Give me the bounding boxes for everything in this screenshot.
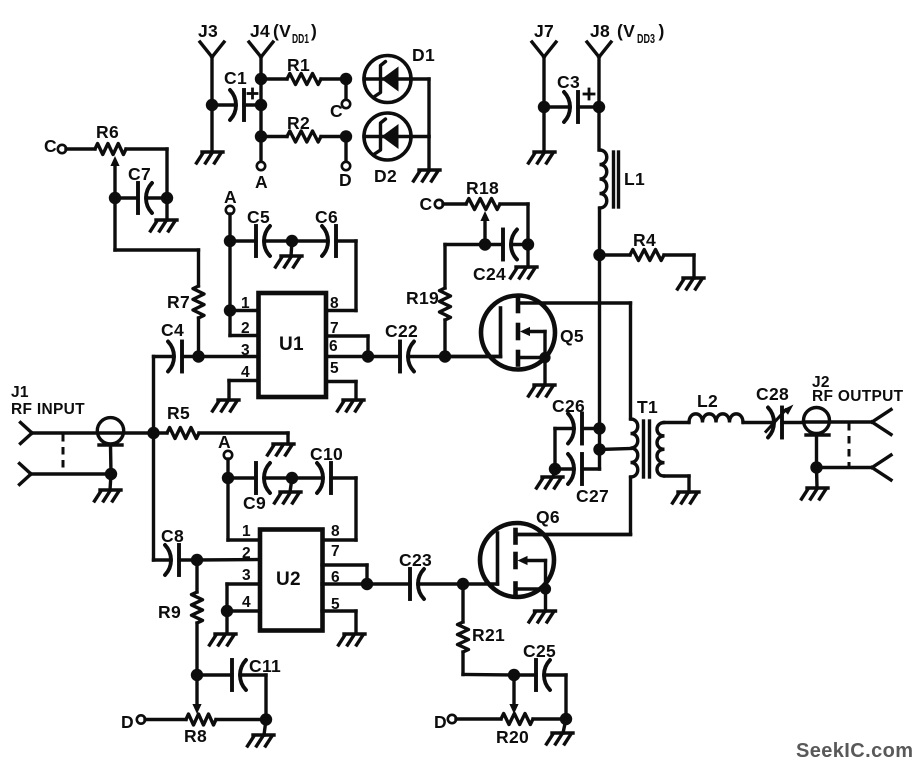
wire R21 to C25 [463,673,514,677]
junction C11-R8 [260,713,272,725]
wire center tap [600,449,631,450]
wire C6 to pin8 [327,241,356,311]
junction J2 shield [810,461,822,473]
svg-text:DD3: DD3 [637,32,655,46]
capacitor C1 label [224,68,247,88]
wire pin5 to ground [326,382,356,401]
resistor R1 label [287,55,310,75]
resistor R2 label [287,113,310,133]
connector J7 label [534,21,554,41]
ground J1 [95,490,122,501]
junction J7-C3 [538,101,550,113]
svg-text:T1: T1 [637,397,658,417]
wire pin6 [326,355,368,358]
connector J2 output pin upper [872,410,891,435]
wire J3 stem [210,57,213,152]
transistor Q5 label [560,326,584,346]
pin 3 number U2 [242,567,251,584]
connector J7 [532,42,556,57]
svg-text:R7: R7 [167,292,190,312]
diode D2 label [374,166,397,186]
potentiometer R8 [145,714,266,725]
pin 8 number [330,295,339,312]
svg-text:2: 2 [241,320,250,337]
wire pin6 U2 [322,582,367,585]
wire A to C9 [226,459,229,478]
junction C26-C27 left [549,463,561,475]
junction J1 shield [105,468,117,480]
wiper arrow R6 [110,156,119,198]
resistor R1 [261,74,346,85]
junction rail-C26 [593,422,605,434]
coax dash J2 [848,423,851,466]
svg-text:C: C [330,101,343,121]
potentiometer R6 [66,144,167,155]
capacitor C27 label [576,486,609,506]
wire L1 to R4 node [598,208,601,255]
wire C5 mid to ground [291,241,292,256]
wire pin3/4 ground [225,611,228,633]
wire shield to lower pin [817,466,873,469]
wiper arrow R20 [509,675,518,714]
wire C11 down [264,675,267,720]
ground R4 [678,278,705,289]
wire J8 stem [597,57,600,150]
wire C9 mid to ground [290,478,292,492]
pin 1 number [241,295,250,312]
inductor L1 label [624,169,645,189]
svg-text:R21: R21 [472,625,505,645]
transistor Q6 [463,523,631,622]
capacitor C23 [367,569,463,599]
resistor R19 [440,288,451,320]
svg-text:R9: R9 [158,602,181,622]
connector J3 label [198,21,218,41]
wire R6 to C7 [165,149,168,198]
potentiometer R18 [443,199,528,210]
wire J7 stem [542,57,545,152]
capacitor C25 [514,660,566,690]
capacitor C11 [197,660,266,690]
ground C24 [511,267,538,278]
junction C8-R9-pin2 [191,554,203,566]
svg-text:C5: C5 [247,207,270,227]
junction pin6-pin7 [362,350,374,362]
ground R8 [248,735,275,746]
pin 4 number [241,364,250,381]
transformer T1 secondary [657,423,665,477]
wire gate lead Q5 [445,355,501,358]
svg-text:C3: C3 [557,72,580,92]
wire D1-D2 to ground [411,79,429,170]
svg-text:3: 3 [241,342,250,359]
wire R18 to C24 right [526,204,529,245]
op-amp U2 label [276,569,301,590]
wire pin3 U2 [227,584,260,611]
capacitor C24 [485,230,528,260]
ground U2 pin3/4 [210,634,237,645]
variable capacitor C28 [743,405,804,438]
pin 2 number [241,320,250,337]
wire C4 node down [152,357,155,561]
junction C7 left [109,192,121,204]
svg-text:4: 4 [241,364,250,381]
transistor Q5 [445,296,631,397]
svg-text:6: 6 [329,338,338,355]
capacitor C7 label [128,164,151,184]
inductor L1 [600,150,619,208]
svg-text:L1: L1 [624,169,645,189]
wire R19 bottom [443,320,446,357]
wire A to C5 [228,214,231,241]
svg-text:5: 5 [330,360,339,377]
wire J1 center [32,431,154,434]
junction on J3 [206,99,218,111]
ground R20 [547,733,574,744]
junction pin3-pin4 U2 [221,605,233,617]
svg-text:RF INPUT: RF INPUT [11,401,85,418]
resistor R20 label [496,727,529,747]
transformer T1 label [637,397,658,417]
svg-text:D2: D2 [374,166,397,186]
ground C9/C10 mid [275,492,302,503]
resistor R7 label [167,292,190,312]
pin 1 number U2 [242,523,251,540]
resistor R2 [261,131,346,142]
svg-text:): ) [659,21,665,41]
resistor R6 label [96,122,119,142]
wire C7 to ground [165,198,168,220]
junction J8-C3 [593,101,605,113]
wire J1 shield ground [110,474,111,490]
capacitor C8 label [161,526,184,546]
wire R20 ground [563,719,566,733]
wire pin2 U2 [197,558,260,562]
op-amp U1 box [259,293,327,397]
svg-text:C25: C25 [523,641,556,661]
node D terminal (bias D) [339,137,352,191]
capacitor C22 label [385,321,418,341]
junction A-C9 [222,472,234,484]
svg-text:3: 3 [242,567,251,584]
svg-text:R4: R4 [633,230,656,250]
pin 6 number U2 [331,569,340,586]
junction R9-C11 [191,669,203,681]
svg-text:SeekIC.com: SeekIC.com [796,740,913,762]
wire R8 ground [264,720,266,736]
svg-text:(V: (V [617,21,635,41]
diode D2 [364,113,411,160]
resistor R7 [193,286,204,318]
inductor L2 label [697,391,718,411]
svg-text:A: A [224,187,237,207]
svg-text:C9: C9 [243,493,266,513]
svg-text:RF OUTPUT: RF OUTPUT [812,388,904,405]
node C terminal (R6) [44,136,66,156]
svg-text:(V: (V [273,21,291,41]
inductor L2 [665,414,744,423]
junction J1 node [147,427,159,439]
svg-text:D: D [339,170,352,190]
wire pin2 [230,311,258,336]
pin 5 number [330,360,339,377]
node C terminal (bias C) [330,79,350,121]
junction C4-R7-pin3 [192,350,204,362]
svg-text:C24: C24 [473,264,506,284]
capacitor C1 [212,89,261,120]
svg-text:C: C [420,194,433,214]
pin 4 number U2 [242,594,251,611]
node D terminal (R8) [121,712,145,732]
svg-text:C: C [44,136,57,156]
svg-text:1: 1 [242,523,251,540]
ground J3 [197,152,224,163]
svg-text:R18: R18 [466,178,499,198]
svg-text:C8: C8 [161,526,184,546]
wire pin3 [199,355,259,358]
junction rail-T1 tap [593,443,605,455]
svg-text:C11: C11 [249,656,281,676]
node A terminal (U2) [218,432,232,459]
svg-text:U1: U1 [279,334,304,355]
ground U1 pin5 [338,400,365,411]
resistor R5 label [167,403,190,423]
ground U2 pin5 [339,634,366,645]
capacitor C23 label [399,550,432,570]
node C terminal (R18) [420,194,444,214]
wire R4 to ground [692,255,695,278]
connector J8 label [590,21,665,46]
svg-text:C22: C22 [385,321,418,341]
svg-text:C1: C1 [224,68,247,88]
capacitor C11 label [249,656,281,676]
junction L1-R4 [593,249,605,261]
connector J2 output pin lower [872,455,891,480]
junction J4-R1 [255,73,267,85]
pin 2 number U2 [242,545,251,562]
svg-text:4: 4 [242,594,251,611]
resistor R9 label [158,602,181,622]
pin 3 number [241,342,250,359]
svg-text:Q6: Q6 [536,507,560,527]
wire R5 to ground [286,433,289,444]
svg-text:L2: L2 [697,391,718,411]
capacitor C6 [292,226,356,256]
junction R21-C25-R20 [508,669,520,681]
capacitor C6 label [315,207,338,227]
transformer T1 core [644,421,650,477]
svg-text:R6: R6 [96,122,119,142]
capacitor C26 label [552,396,585,416]
node A terminal (bias A) [255,137,268,193]
wire J1 jack shield [109,445,113,474]
junction R2-D2 [340,130,352,142]
svg-text:D: D [434,712,447,732]
connector J4 [249,42,273,57]
wire Q6 drain [516,533,631,536]
resistor R21 [458,584,469,675]
connector J1 input pin upper [21,423,33,444]
ground U1 pin4 [213,400,240,411]
op-amp U2 box [260,530,323,631]
svg-text:8: 8 [331,523,340,540]
op-amp U1 label [279,334,304,355]
ground T1 secondary [673,492,700,503]
svg-text:C23: C23 [399,550,432,570]
wire pin7 U2 [322,565,367,584]
junction R1-D1 [340,73,352,85]
ground D1/D2 [414,170,441,181]
capacitor C10 [292,463,356,493]
junction J4-R2 [255,130,267,142]
svg-text:J8: J8 [590,21,610,41]
svg-text:D1: D1 [412,45,435,65]
svg-text:D: D [121,712,134,732]
resistor R8 label [184,726,207,746]
junction C23-R21-gate [457,578,469,590]
ground R5 [268,444,295,455]
svg-text:U2: U2 [276,569,301,590]
pin 7 number [330,320,339,337]
capacitor C3 label [557,72,580,92]
wire J1 shield line [31,472,111,475]
capacitor C24 label [473,264,506,284]
transformer T1 primary [631,419,638,477]
svg-text:1: 1 [241,295,250,312]
resistor R9 [192,560,203,675]
transistor Q6 label [536,507,560,527]
resistor R5 [154,428,289,439]
svg-text:J3: J3 [198,21,218,41]
junction pin6-pin7 U2 [361,578,373,590]
svg-text:C6: C6 [315,207,338,227]
junction C5-C6 [286,235,298,247]
connector J1 jack [97,418,123,445]
svg-text:C28: C28 [756,384,789,404]
wire pin7 [326,336,368,357]
resistor R4 [600,250,695,261]
connector J2 label [812,374,904,405]
svg-text:R8: R8 [184,726,207,746]
wire R7 to C4 node [197,318,200,357]
resistor R19 label [406,288,439,308]
capacitor C5 [230,226,292,256]
capacitor C22 [368,342,445,372]
capacitor C9 label [243,493,266,513]
capacitor C7 [115,183,167,213]
svg-text:A: A [218,432,231,452]
wiper arrow R18 [480,211,489,245]
wire C24 to ground [526,245,529,268]
wire pin5 U2 to ground [322,611,356,633]
capacitor C26 [555,414,600,444]
capacitor C9 [228,463,292,493]
ground J7 [529,152,556,163]
ground C5/C6 mid [276,256,303,267]
svg-text:J4: J4 [250,21,270,41]
junction A-C5 [224,235,236,247]
resistor R4 label [633,230,656,250]
connector J1 label [11,384,85,418]
svg-text:R19: R19 [406,288,439,308]
svg-text:DD1: DD1 [292,32,309,46]
capacitor C27 [555,454,600,484]
capacitor C25 label [523,641,556,661]
wire Q5 drain to T1 [629,303,632,419]
ground C7 [151,220,178,231]
junction J4-C1 [255,99,267,111]
capacitor C28 label [756,384,789,404]
connector J3 [200,42,224,57]
ground J2 [802,488,829,499]
wire VDD rail down [598,255,601,469]
wire C7 to R7 [115,198,199,286]
watermark SeekIC.com [796,740,913,762]
svg-text:J7: J7 [534,21,554,41]
svg-text:8: 8 [330,295,339,312]
wire J2 shield [815,435,818,468]
svg-text:R20: R20 [496,727,529,747]
svg-text:C27: C27 [576,486,609,506]
junction C25-R20 [560,713,572,725]
wire pin1 [230,309,258,312]
svg-text:): ) [311,21,317,41]
pin 5 number U2 [331,596,340,613]
svg-text:C10: C10 [310,444,343,464]
svg-text:A: A [255,172,268,192]
diode D1 [364,56,411,103]
junction pin1 [224,304,236,316]
connector J2 jack [804,408,830,436]
junction C24 right [522,238,534,250]
wire T1 secondary bottom [665,476,690,492]
pin 6 number [329,338,338,355]
junction C7 right [161,192,173,204]
capacitor C4 label [161,320,184,340]
svg-text:2: 2 [242,545,251,562]
wire C10 to pin8 [324,478,356,540]
wire J2 shield ground [815,468,819,488]
capacitor C8 [154,545,198,575]
coax dash J1 [62,434,65,473]
pin 7 number U2 [331,543,340,560]
potentiometer R20 [456,714,566,725]
connector J4 label [250,21,317,46]
resistor R21 label [472,625,505,645]
capacitor C10 label [310,444,343,464]
capacitor C5 label [247,207,270,227]
svg-text:Q5: Q5 [560,326,584,346]
svg-text:7: 7 [331,543,340,560]
wire J4 stem [259,57,262,137]
junction C22-R19-gate [439,350,451,362]
wire J2 through [804,420,873,423]
svg-text:C7: C7 [128,164,151,184]
wire T1 primary to Q6 drain [629,477,632,534]
wire C25 down [564,675,567,719]
pin 8 number U2 [331,523,340,540]
wire A node to pin1 [228,478,260,540]
wire C26 left branch [553,429,556,470]
svg-text:R5: R5 [167,403,190,423]
diode D1 label [412,45,435,65]
wire C27 left to ground [553,469,555,477]
wire pin4 to ground [229,381,258,401]
node A terminal (U1) [224,187,237,214]
wire A node to pin1 [228,241,231,311]
capacitor C4 [154,342,199,372]
wire C24 to R19 [445,245,485,289]
